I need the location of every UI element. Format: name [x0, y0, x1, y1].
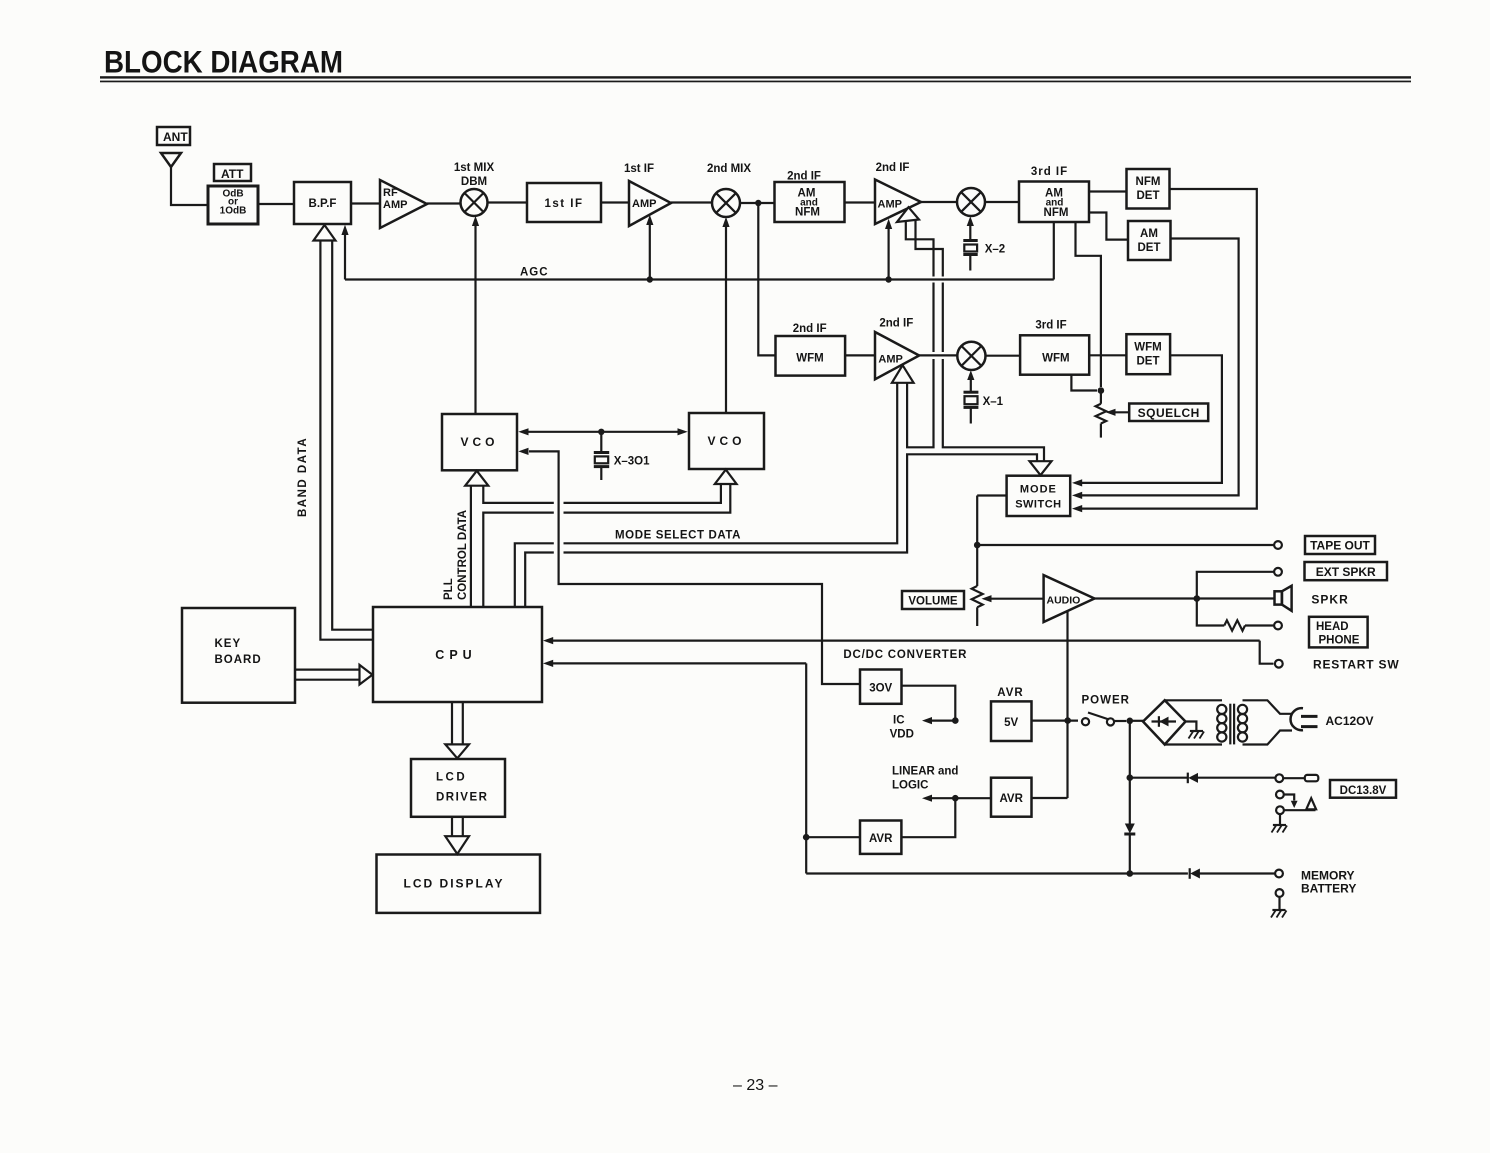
DC13.8V label box — [1330, 780, 1396, 798]
PLL CONTROL DATA label (rotated) — [443, 510, 469, 600]
speaker junction node — [1194, 595, 1201, 602]
svg-text:AGC: AGC — [520, 267, 549, 279]
wire 3rd IF box to AM detector — [1089, 213, 1128, 240]
MEMORY BATTERY label — [1301, 869, 1356, 896]
power switch — [1082, 713, 1126, 726]
junction node AVR output — [952, 795, 959, 802]
svg-text:B.P.F: B.P.F — [309, 198, 337, 210]
wire 2nd IF amp to 3rd mixer — [921, 201, 957, 203]
regulator AVR box (lower) — [860, 821, 901, 854]
ANT label box — [157, 127, 190, 145]
wire 1st IF filter to 1st IF amp — [601, 201, 629, 203]
DC jack switch arm with arrow — [1284, 795, 1294, 801]
junction node after 2nd mixer — [755, 200, 761, 206]
resistor (headphone) — [1224, 620, 1245, 630]
svg-text:BAND DATA: BAND DATA — [297, 437, 309, 517]
hollow arrow into LCD driver — [445, 744, 469, 758]
PLL branch lower line to VCO2 — [483, 485, 730, 608]
power rail wire into CPU with arrow — [552, 662, 806, 664]
3rd IF WFM box — [1020, 335, 1089, 374]
svg-text:BOARD: BOARD — [215, 654, 262, 666]
VCO U2 box — [689, 413, 764, 469]
band-pass filter B.P.F — [294, 182, 351, 224]
mode bus AM amp to mode switch — [916, 218, 1045, 462]
svg-text:DET: DET — [1137, 356, 1160, 368]
ATT label box — [214, 164, 251, 181]
wire mode switch down to volume pot — [976, 496, 978, 587]
label 1st MIX / DBM — [454, 162, 495, 188]
EXT SPKR label box — [1305, 562, 1388, 580]
squelch potentiometer — [1096, 391, 1107, 438]
svg-text:BATTERY: BATTERY — [1301, 882, 1356, 896]
hollow arrow into VCO1 — [465, 471, 488, 486]
svg-text:– 23 –: – 23 – — [733, 1077, 778, 1094]
ext speaker wire and terminal — [1197, 572, 1274, 599]
ground at DC jack — [1272, 814, 1288, 832]
svg-text:2nd IF: 2nd IF — [879, 318, 913, 330]
wire attenuator to BPF — [258, 203, 294, 205]
DC jack ground contact terminal — [1276, 806, 1284, 814]
memory battery rail — [806, 872, 1188, 874]
svg-text:AVR: AVR — [869, 833, 893, 845]
svg-text:VCO: VCO — [460, 435, 498, 449]
LCD DRIVER box — [411, 759, 505, 817]
svg-text:2nd IF: 2nd IF — [876, 162, 910, 174]
mode select data lower line CPU to mode switch — [525, 454, 1037, 607]
svg-text:MEMORY: MEMORY — [1301, 869, 1355, 883]
junction node audio rail — [1064, 717, 1071, 724]
transformer core — [1229, 704, 1231, 745]
svg-text:TAPE OUT: TAPE OUT — [1310, 539, 1370, 553]
AGC riser from 3rd IF box — [1053, 222, 1055, 280]
wire lower AVR to junction — [901, 798, 955, 837]
wire 30V supply to VCO1 with arrow — [529, 451, 860, 684]
crystal X-301 — [594, 432, 609, 480]
KEY BOARD box — [182, 608, 295, 703]
svg-text:3OV: 3OV — [869, 683, 892, 695]
RF amplifier — [380, 180, 427, 228]
mode bus WFM amp to AM amp — [906, 222, 934, 447]
restart switch wire and terminal — [1260, 641, 1274, 664]
AGC junction under 2nd IF amp — [885, 276, 891, 282]
wire between VCOs with arrows both ends — [528, 431, 678, 433]
svg-text:WFM: WFM — [1134, 342, 1161, 354]
tape out wire and terminal — [977, 544, 1274, 546]
svg-text:1OdB: 1OdB — [220, 206, 247, 217]
rectifier bridge — [1143, 700, 1186, 744]
contact triangle — [1306, 798, 1316, 809]
svg-text:AMP: AMP — [383, 199, 407, 211]
svg-text:VDD: VDD — [890, 729, 914, 741]
svg-text:2nd IF: 2nd IF — [787, 171, 821, 183]
arrow to linear/logic — [922, 795, 932, 802]
svg-text:X–2: X–2 — [985, 244, 1005, 256]
LCD driver to LCD display bus shafts — [451, 817, 453, 837]
svg-text:WFM: WFM — [796, 353, 823, 365]
DC13.8V wire with diode — [1130, 777, 1188, 779]
headphone wire with resistor — [1197, 599, 1225, 626]
wire NFM detector to mode switch with arrow — [1081, 189, 1257, 509]
svg-text:MODE: MODE — [1020, 484, 1057, 496]
wire mixer to 3rd IF AM/NFM box — [985, 201, 1019, 203]
svg-text:DBM: DBM — [461, 176, 487, 188]
keyboard to CPU bus shafts — [295, 668, 360, 670]
wire antenna to attenuator — [171, 167, 208, 205]
wire VCO2 to 2nd mixer with arrow — [725, 222, 727, 413]
PLL bus shaft right line CPU to VCO1 — [483, 485, 721, 503]
wire 5V box to power switch — [1032, 719, 1079, 721]
memory battery ground terminal — [1276, 889, 1284, 897]
junction node at lower AVR input — [803, 834, 810, 841]
ground at memory battery — [1271, 897, 1287, 918]
wire 2nd IF box to 2nd IF amp — [845, 201, 876, 203]
svg-text:CPU: CPU — [435, 648, 476, 662]
crystal X-1 — [964, 392, 979, 423]
hollow arrow into WFM 2nd IF amp — [892, 365, 914, 383]
svg-text:1st IF: 1st IF — [544, 198, 583, 210]
HEAD PHONE label box — [1309, 617, 1368, 648]
AGC arrow into 2nd IF amp — [887, 224, 889, 280]
wire RF amp to 1st mixer — [427, 202, 461, 204]
power rail from CPU down left side — [805, 663, 807, 873]
svg-text:BLOCK DIAGRAM: BLOCK DIAGRAM — [104, 44, 343, 80]
svg-text:DET: DET — [1137, 190, 1160, 202]
svg-text:IC: IC — [893, 715, 905, 727]
wire WFM detector to mode switch with arrow — [1081, 355, 1222, 483]
2nd IF WFM box — [776, 336, 846, 376]
svg-text:X–3O1: X–3O1 — [614, 456, 650, 468]
main DC rail down from switch — [1129, 721, 1131, 820]
svg-text:CONTROL DATA: CONTROL DATA — [457, 510, 469, 600]
svg-text:RESTART SW: RESTART SW — [1313, 658, 1399, 672]
VOLUME label box — [902, 591, 964, 609]
svg-text:DRIVER: DRIVER — [436, 792, 488, 804]
mixer 2nd MIX — [712, 189, 740, 217]
svg-text:2nd MIX: 2nd MIX — [707, 163, 751, 175]
svg-text:DC13.8V: DC13.8V — [1340, 785, 1387, 797]
wire VCO1 to 1st mixer with arrow — [474, 221, 476, 414]
crystal X-2 — [963, 241, 977, 271]
wire 30V box to 5V rail — [902, 686, 956, 721]
svg-text:EXT SPKR: EXT SPKR — [1316, 565, 1376, 579]
svg-text:AVR: AVR — [999, 793, 1023, 805]
DC/DC converter 30V box — [860, 670, 902, 704]
svg-text:AM: AM — [1140, 228, 1158, 240]
svg-text:MODE SELECT DATA: MODE SELECT DATA — [615, 530, 741, 542]
AM detector box — [1128, 221, 1171, 260]
band data bus outer line BPF to CPU — [320, 241, 373, 640]
squelch wiper arrow — [1106, 409, 1116, 416]
svg-text:3rd IF: 3rd IF — [1031, 166, 1068, 178]
restart switch wire into CPU with arrow — [552, 639, 1260, 641]
transformer secondary winding — [1238, 700, 1292, 744]
svg-text:POWER: POWER — [1082, 695, 1130, 707]
svg-text:HEAD: HEAD — [1316, 621, 1349, 633]
svg-text:SPKR: SPKR — [1311, 593, 1348, 607]
svg-text:AVR: AVR — [997, 687, 1023, 699]
svg-text:WFM: WFM — [1042, 353, 1069, 365]
IC VDD arrow — [922, 717, 932, 724]
svg-text:PHONE: PHONE — [1319, 635, 1360, 647]
mixer 1st MIX — [461, 189, 488, 216]
amplifier 2nd IF AMP (WFM chain) — [875, 332, 919, 379]
2nd IF AM and NFM box — [775, 182, 845, 222]
VCO U1 box — [442, 414, 517, 470]
wire junction down to WFM 2nd IF box — [758, 203, 775, 355]
wire 2nd mixer to 2nd IF AM/NFM box — [740, 202, 775, 204]
LINEAR and LOGIC label — [892, 766, 958, 792]
junction node DC13.8V branch — [1127, 774, 1134, 781]
WFM detector box — [1126, 334, 1170, 374]
hollow arrow into AM 2nd IF amp — [897, 207, 919, 222]
svg-text:SQUELCH: SQUELCH — [1138, 406, 1200, 420]
amplifier 1st IF AMP — [629, 181, 671, 226]
MODE SWITCH box — [1007, 476, 1071, 516]
AGC line — [345, 278, 1054, 280]
AGC junction under 1st IF amp — [647, 276, 653, 282]
wire audio rail into AVR — [1032, 797, 1068, 799]
wire 3rd IF WFM bottom to squelch node — [1071, 375, 1097, 391]
svg-text:3rd IF: 3rd IF — [1035, 320, 1066, 332]
fuse — [1283, 777, 1305, 779]
AGC arrow into BPF — [344, 230, 346, 280]
wire BPF to RF amp — [351, 202, 380, 204]
diode (series, pointing down) — [1124, 820, 1135, 874]
svg-text:AMP: AMP — [878, 354, 902, 366]
hollow arrow into VCO2 — [715, 470, 737, 484]
wire 1st IF amp to 2nd mixer — [671, 201, 712, 203]
AC plug — [1291, 708, 1318, 730]
svg-text:RF: RF — [383, 187, 398, 199]
tape out junction node — [974, 542, 981, 549]
junction node memory rail — [1127, 870, 1134, 877]
svg-text:ANT: ANT — [163, 130, 188, 144]
audio amplifier — [1044, 575, 1095, 622]
amplifier 2nd IF AMP (AM chain) — [875, 180, 921, 225]
svg-text:NFM: NFM — [795, 207, 820, 219]
diode (memory battery) — [1190, 868, 1275, 879]
svg-text:ATT: ATT — [221, 167, 244, 181]
svg-text:AMP: AMP — [632, 198, 656, 210]
volume potentiometer — [972, 586, 983, 626]
wire 3rd IF box to NFM detector — [1089, 190, 1127, 192]
mixer (WFM chain) — [957, 342, 985, 370]
wire AM detector to mode switch with arrow — [1081, 239, 1239, 496]
svg-text:1st IF: 1st IF — [624, 163, 654, 175]
hollow arrow into LCD display — [445, 836, 469, 854]
DC jack switch contact terminal — [1276, 791, 1284, 799]
regulator 5V box — [991, 701, 1032, 741]
wire mode switch to volume node — [977, 494, 1006, 496]
hollow arrow into CPU left — [360, 665, 373, 685]
mixer (AM chain 3rd) — [957, 188, 985, 216]
TAPE OUT label box — [1305, 536, 1375, 554]
wire WFM amp to WFM mixer — [919, 354, 957, 356]
svg-text:SWITCH: SWITCH — [1015, 499, 1061, 511]
hollow arrow into BPF bottom — [314, 225, 336, 241]
wire 3rd IF AM/NFM bottom to squelch node — [1076, 222, 1101, 387]
junction node 30V/5V rail — [952, 717, 959, 724]
svg-text:LCD: LCD — [436, 772, 467, 784]
AGC arrow into 1st IF amp — [649, 220, 651, 280]
svg-text:AUDIO: AUDIO — [1047, 595, 1081, 607]
svg-text:VOLUME: VOLUME — [908, 596, 958, 608]
svg-text:KEY: KEY — [215, 638, 242, 650]
svg-text:AMP: AMP — [878, 199, 902, 211]
wire audio amp to speaker — [1095, 597, 1275, 599]
band data bus inner line BPF to CPU — [332, 241, 373, 630]
diode (DC13.8V input) — [1188, 773, 1275, 784]
svg-text:2nd IF: 2nd IF — [793, 323, 827, 335]
attenuator 0dB/10dB box — [208, 186, 258, 224]
svg-text:LCD DISPLAY: LCD DISPLAY — [404, 877, 505, 891]
CPU to LCD driver bus shafts — [451, 702, 453, 745]
NFM detector box — [1127, 169, 1170, 209]
wire audio amp down to 5V rail — [1066, 611, 1068, 798]
DC13.8V terminal — [1275, 774, 1283, 782]
wire 3rd IF WFM box to WFM detector — [1089, 354, 1126, 356]
svg-text:AC12OV: AC12OV — [1326, 714, 1374, 728]
svg-text:NFM: NFM — [1044, 207, 1069, 219]
svg-text:NFM: NFM — [1136, 176, 1161, 188]
3rd IF AM and NFM box — [1019, 182, 1089, 223]
svg-text:5V: 5V — [1004, 717, 1018, 729]
crystal X-2 arrow into mixer — [969, 222, 971, 240]
crystal X-1 arrow into mixer — [970, 376, 972, 392]
LCD DISPLAY box — [377, 855, 541, 913]
svg-text:DET: DET — [1138, 242, 1161, 254]
svg-text:VCO: VCO — [707, 434, 745, 448]
volume wiper arrow — [982, 595, 992, 602]
memory battery terminal — [1275, 870, 1283, 878]
SQUELCH label box — [1129, 404, 1208, 422]
transformer primary winding — [1165, 700, 1227, 744]
regulator AVR box (linear/logic) — [991, 778, 1032, 817]
ground at bridge — [1186, 722, 1205, 739]
svg-text:PLL: PLL — [443, 578, 455, 600]
wire WFM box to WFM amp — [845, 354, 875, 356]
IC VDD label — [890, 715, 914, 741]
svg-text:LOGIC: LOGIC — [892, 780, 928, 792]
wire WFM mixer to 3rd IF WFM box — [986, 355, 1021, 357]
svg-text:LINEAR and: LINEAR and — [892, 766, 958, 778]
junction node at bridge — [1127, 718, 1134, 725]
mode select data upper line CPU to WFM amp — [515, 383, 897, 607]
svg-text:1st MIX: 1st MIX — [454, 162, 495, 174]
svg-text:X–1: X–1 — [983, 396, 1004, 408]
wire 1st mixer to 1st IF filter — [488, 201, 528, 203]
speaker SPKR — [1275, 586, 1292, 611]
PLL bus shaft left line CPU to VCO1 — [470, 485, 472, 607]
antenna symbol — [161, 153, 181, 167]
svg-text:DC/DC CONVERTER: DC/DC CONVERTER — [843, 649, 967, 661]
title double rule — [100, 76, 1411, 78]
junction node at X-301 — [598, 429, 604, 435]
1st IF filter box — [527, 183, 601, 222]
squelch junction node — [1098, 387, 1105, 394]
hollow arrow into mode switch top — [1030, 461, 1052, 475]
CPU box — [373, 607, 542, 702]
